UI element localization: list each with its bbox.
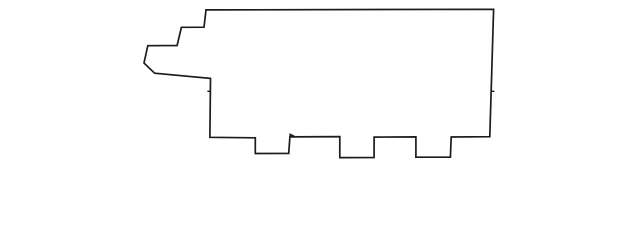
small flag marker at notch corner	[290, 134, 294, 137]
tick on right edge	[491, 90, 494, 92]
part outline	[144, 9, 494, 157]
tick on left vertical	[207, 90, 210, 92]
